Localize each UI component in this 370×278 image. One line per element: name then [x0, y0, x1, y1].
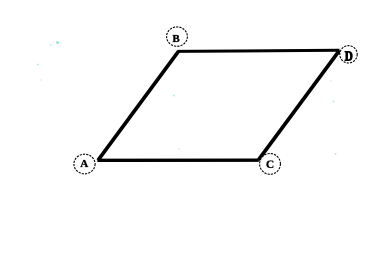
svg-text:B: B — [172, 33, 180, 45]
svg-text:D: D — [345, 48, 353, 63]
svg-text:A: A — [80, 158, 88, 170]
svg-text:C: C — [266, 159, 274, 171]
